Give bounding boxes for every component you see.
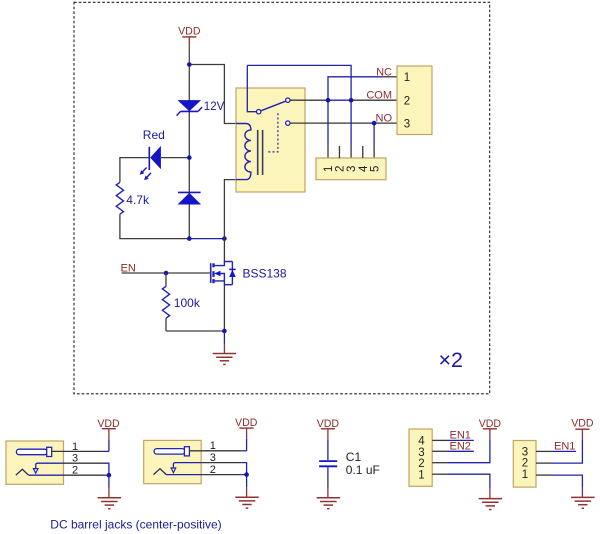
DC barrel jack 2 — [144, 417, 259, 508]
svg-text:5: 5 — [369, 166, 381, 172]
wire pin3 EN2 — [432, 450, 448, 452]
svg-text:12V: 12V — [204, 101, 225, 113]
node gate junction — [164, 271, 169, 276]
svg-text:2: 2 — [404, 95, 410, 107]
LED Red — [140, 146, 161, 180]
svg-text:NC: NC — [376, 67, 392, 79]
svg-text:3: 3 — [404, 118, 410, 130]
power VDD (top, main) — [178, 26, 201, 47]
power VDD (4-pin) — [479, 418, 502, 440]
svg-text:2: 2 — [210, 464, 216, 476]
node B junction — [187, 236, 192, 241]
wire VDD to node A — [188, 47, 190, 65]
jack switch contact wire — [173, 463, 201, 468]
wire node B to drain node — [189, 238, 224, 240]
wire resistor bottom to node B — [120, 214, 189, 238]
jack center pin collar — [184, 447, 189, 456]
svg-text:1: 1 — [404, 72, 410, 84]
wire pin3 EN1 — [536, 450, 552, 452]
svg-text:×2: ×2 — [439, 348, 464, 372]
jack switch contact wire — [36, 463, 64, 468]
pin stub 2 — [338, 146, 340, 158]
svg-text:4: 4 — [358, 165, 370, 172]
Q1 gate bar — [210, 263, 212, 283]
relay switch arm — [261, 101, 286, 111]
wire NO line — [290, 122, 371, 124]
svg-text:NO: NO — [376, 113, 393, 125]
connector J-EN1 3-pin box — [513, 441, 536, 488]
pin stub 4 — [362, 146, 364, 158]
ground (3-pin) — [571, 488, 595, 509]
ground (C1) — [317, 488, 341, 509]
wire EN to gate — [122, 272, 210, 274]
wire source — [223, 285, 225, 331]
Q1 body diode — [229, 268, 236, 270]
power VDD (jack1) — [97, 418, 120, 452]
connector J-OUT 3-pin box — [397, 66, 432, 135]
svg-text:EN1: EN1 — [554, 440, 575, 452]
jack1 pin 3 wire — [64, 462, 105, 464]
svg-text:VDD: VDD — [178, 26, 201, 38]
Q1 drain/source/body internal wiring — [214, 262, 232, 285]
svg-text:VDD: VDD — [571, 418, 594, 430]
jack center pin barrel — [16, 449, 47, 455]
connector J-EN 4-pin box — [409, 429, 432, 486]
svg-text:COM: COM — [366, 90, 392, 102]
svg-text:1: 1 — [522, 469, 528, 481]
wire pin1 to ground — [536, 474, 552, 476]
svg-text:1: 1 — [72, 441, 78, 453]
jack sleeve wire — [166, 474, 201, 476]
wire pin4 EN1 — [432, 439, 448, 441]
svg-text:Red: Red — [143, 128, 165, 142]
zener diode 12V — [177, 100, 202, 116]
capacitor C1 — [319, 439, 337, 488]
svg-text:2: 2 — [418, 458, 424, 470]
ground (jack1) — [98, 475, 122, 509]
jack switch contact tip — [33, 469, 38, 474]
svg-text:2: 2 — [522, 457, 528, 469]
relay contact NC circle — [286, 98, 290, 102]
svg-text:1: 1 — [210, 440, 216, 452]
resistor 4.7k — [116, 182, 123, 214]
transistor Q1 BSS138 — [211, 239, 236, 331]
relay actuator dashed link — [267, 113, 278, 152]
svg-text:0.1 uF: 0.1 uF — [346, 463, 380, 477]
wire LED cathode to resistor — [120, 158, 149, 183]
Q1 channel segments — [212, 263, 214, 267]
node A junction — [187, 62, 192, 67]
relay core — [257, 130, 259, 175]
wire NC column down to header pin 1 — [327, 100, 329, 146]
Q1 body arrow — [214, 271, 220, 276]
svg-text:1: 1 — [323, 166, 335, 172]
wire resistor to source node — [166, 330, 224, 332]
wire COM column down to header pin 3 — [350, 100, 352, 146]
jack switch contact tip — [171, 468, 176, 473]
resistor 100k — [165, 273, 167, 286]
power VDD (3-pin) — [571, 418, 594, 440]
wire NO column down to header pin 5 — [373, 123, 375, 146]
svg-text:3: 3 — [72, 453, 78, 465]
node LED junction — [187, 155, 192, 160]
jack1 pin 2 wire — [64, 474, 105, 476]
svg-text:1: 1 — [418, 469, 424, 481]
jack sleeve spring contact — [16, 469, 29, 475]
svg-text:DC barrel jacks (center-positi: DC barrel jacks (center-positive) — [50, 517, 221, 531]
wire main vertical (zener/diode chain) — [188, 65, 190, 239]
node COM junction — [349, 98, 354, 103]
node NC junction — [326, 98, 331, 103]
svg-text:3: 3 — [346, 166, 358, 172]
relay contact pivot circle — [257, 110, 261, 114]
diode flyback — [178, 192, 202, 204]
jack1 node — [107, 473, 112, 478]
wire relay common pivot — [247, 65, 256, 111]
jack sleeve spring contact — [154, 469, 167, 475]
wire drain — [223, 239, 225, 262]
node drain junction — [222, 236, 227, 241]
wire COM line — [290, 99, 327, 101]
svg-text:BSS138: BSS138 — [243, 266, 287, 280]
svg-text:100k: 100k — [174, 296, 201, 310]
wire NC pin stub — [381, 76, 397, 78]
svg-text:2: 2 — [334, 166, 346, 172]
wire pin1 to ground — [432, 473, 448, 475]
wire pin2 to VDD — [432, 462, 448, 464]
power VDD (C1) — [317, 418, 340, 439]
DC barrel jack 1 — [6, 441, 64, 484]
connector header 5-pin box — [316, 158, 386, 180]
jack sleeve wire — [29, 474, 64, 476]
svg-text:EN2: EN2 — [450, 440, 471, 452]
wire pin2 to VDD — [536, 462, 552, 464]
wire common to COM column — [247, 65, 351, 100]
ground (4-pin) — [479, 489, 503, 510]
jack1 pin 1 wire — [52, 450, 104, 452]
svg-text:4.7k: 4.7k — [126, 193, 150, 207]
node source junction — [222, 329, 227, 334]
dashed enclosure box — [74, 2, 490, 394]
svg-text:3: 3 — [418, 447, 424, 459]
wire node A to relay coil top — [189, 65, 236, 124]
svg-text:2: 2 — [72, 465, 78, 477]
wire NC net — [328, 77, 381, 100]
jack center pin collar — [47, 447, 52, 456]
ground (MOSFET source) — [213, 331, 236, 364]
svg-text:3: 3 — [210, 452, 216, 464]
relay contact NO circle — [286, 121, 290, 125]
wire LED to main vertical — [161, 157, 189, 159]
relay coil — [236, 124, 251, 180]
node NO junction — [372, 121, 377, 126]
wire relay coil bottom to drain node — [224, 180, 236, 239]
jack center pin barrel — [154, 449, 185, 455]
svg-text:4: 4 — [418, 436, 425, 448]
relay box — [236, 88, 305, 192]
